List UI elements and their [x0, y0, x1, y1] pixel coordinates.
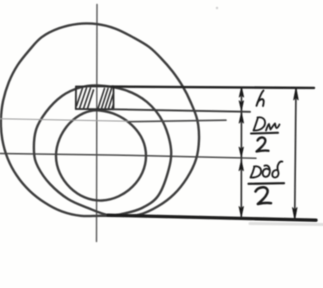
box bottom edge	[76, 108, 114, 110]
V1 arrow up below L2	[239, 113, 243, 123]
fraction bar 1	[251, 132, 278, 135]
numeral 2 (upper)	[257, 137, 269, 151]
dimension line V2	[295, 88, 296, 219]
faint scan smear under bottom line	[250, 224, 323, 225]
д (∂) stroke	[263, 165, 270, 176]
label Dн (numerator)	[254, 117, 280, 130]
label h	[257, 91, 264, 107]
в (б) stroke	[272, 161, 282, 177]
big circle D outer flange	[1, 23, 199, 216]
numeral 2 (lower)	[256, 187, 272, 204]
circle Dн (middle)	[34, 85, 171, 215]
extension line L3	[129, 120, 226, 122]
box top edge	[76, 85, 114, 87]
horizontal centerline	[0, 154, 256, 159]
D stroke	[251, 167, 255, 178]
circle bore (inner)	[56, 110, 146, 200]
V1 arrow up at L1	[239, 88, 243, 98]
extension line L3 faint left part	[0, 119, 129, 121]
faint speckle top right	[216, 7, 218, 9]
hatching strokes	[77, 88, 114, 109]
V1 arrow up below L4	[239, 161, 243, 171]
label Dдв (numerator)	[251, 161, 283, 177]
V1 arrow down at L2	[239, 101, 243, 110]
dimension line V1	[240, 88, 242, 218]
fraction bar 2	[249, 182, 285, 185]
extension line L1 (top, from box corner)	[112, 87, 314, 88]
box right edge	[113, 87, 115, 110]
vertical centerline	[96, 5, 99, 242]
V1 arrow down above L4	[239, 147, 243, 157]
V2 arrow up at L1	[294, 88, 299, 100]
D stroke	[254, 118, 259, 131]
V1 arrow down at bottom line	[239, 207, 243, 217]
hatched rim section box	[76, 86, 114, 109]
м stroke	[266, 124, 280, 131]
bottom tangent line	[108, 215, 316, 220]
extension line L2	[114, 109, 251, 112]
box left edge	[75, 87, 77, 110]
V2 arrow down at bottom line	[293, 208, 298, 220]
